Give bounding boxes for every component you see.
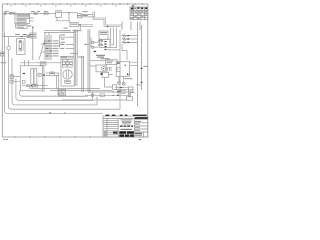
right sub column	[143, 132, 145, 137]
left terminal T2	[92, 46, 94, 48]
dark arrow in box	[127, 73, 129, 75]
trellis junction dots	[44, 43, 45, 44]
motor circle on wire A	[117, 91, 119, 93]
tiny box in condenser	[22, 81, 25, 84]
bottom band bus lines	[33, 89, 113, 91]
right switch row 1	[122, 35, 128, 37]
ignition module board 2	[17, 20, 26, 23]
arrow mark on wire B	[117, 95, 119, 96]
junction dot	[125, 65, 126, 66]
vertical wires below legend	[122, 22, 140, 31]
compressor control box	[99, 31, 108, 39]
center gray row	[121, 129, 133, 130]
terminal block TB1	[10, 75, 14, 79]
condenser bottom wire	[22, 85, 48, 87]
right vertical near condenser	[43, 65, 45, 92]
relay labels	[82, 11, 88, 12]
ladder rungs	[66, 45, 74, 49]
inline fuse	[27, 35, 29, 37]
long vertical bus right 1	[137, 22, 139, 107]
small box lower	[113, 85, 117, 90]
small box on wire A	[121, 90, 125, 93]
dark dash terminal	[94, 51, 97, 52]
panel terminal row 1	[62, 59, 67, 61]
fuse F1	[4, 12, 6, 14]
relay box RB2	[77, 16, 81, 18]
zone tick marks top border	[8, 3, 143, 5]
left terminal T1	[92, 41, 94, 43]
switch contacts S2	[44, 13, 46, 15]
connector label text	[96, 55, 105, 56]
right block cell texts	[135, 121, 141, 131]
small control box	[106, 60, 117, 65]
legend header text row	[131, 7, 147, 9]
inner small box	[117, 68, 120, 72]
center title bold text	[119, 131, 134, 137]
wire below module	[16, 18, 34, 28]
title block header line	[103, 118, 148, 120]
left edge label	[1, 62, 7, 63]
junction dot	[21, 36, 22, 37]
switch contacts S1	[34, 13, 36, 15]
battery box	[17, 38, 25, 54]
small box on wire B	[100, 94, 105, 97]
drop wires into condenser	[25, 60, 29, 66]
wires from RB3	[46, 73, 59, 89]
relay box mid RB3	[50, 72, 54, 76]
L wire below switches	[122, 44, 127, 60]
battery feed wire	[3, 36, 33, 38]
right switch row 2	[122, 38, 128, 40]
blower motor dome	[63, 70, 72, 79]
ammeter gauge	[7, 46, 11, 50]
small motor circle	[32, 84, 35, 87]
wires from relay boxes	[81, 14, 94, 17]
revision column	[106, 119, 108, 138]
wire flasher to junction	[78, 24, 80, 26]
evaporator panel tall box	[61, 58, 74, 86]
battery cell	[19, 41, 22, 51]
legend table top right	[130, 7, 148, 20]
capacitor C1	[31, 68, 34, 84]
arrow stub right	[85, 43, 90, 45]
center wires	[60, 36, 74, 38]
wire label texts	[5, 11, 10, 12]
text above	[101, 58, 110, 59]
nested enclosure 5	[20, 91, 88, 96]
wires from pins up right	[108, 28, 120, 50]
label box left-center	[30, 33, 36, 38]
sheet border frame	[2, 4, 148, 137]
terminal block TB2	[10, 80, 13, 83]
lower right wire	[90, 60, 106, 62]
small text	[137, 85, 141, 86]
motor circle A	[118, 81, 121, 84]
tiny box on bus	[30, 87, 33, 89]
battery area label texts	[15, 34, 20, 35]
pressure switch	[102, 67, 106, 71]
ignition module board 1	[17, 16, 29, 19]
wires to motors	[119, 76, 124, 82]
relay enclosure box right	[116, 62, 129, 77]
vertical dividers	[118, 119, 134, 138]
wire from box to bus	[130, 62, 138, 65]
side verticals	[82, 56, 84, 92]
sheet number below border	[139, 139, 142, 140]
upper trellis wire	[44, 30, 60, 32]
zone tick marks bottom border	[15, 136, 90, 138]
drop wire at x4	[3, 13, 5, 36]
bus line lower	[58, 96, 127, 100]
wire from B1 right	[62, 12, 70, 14]
revision marks	[104, 131, 107, 136]
bottom wire A	[88, 91, 129, 93]
center small text rows	[121, 119, 133, 124]
bottom horizontals right	[115, 88, 133, 90]
vertical to connector box	[128, 92, 130, 97]
vertical wire with arrow	[58, 35, 60, 47]
junction dot 2 on enclosure line	[64, 112, 65, 113]
wire to flasher	[56, 17, 70, 22]
wire down from junction	[68, 13, 70, 21]
control box B1 top	[56, 11, 62, 17]
right center verticals	[88, 30, 90, 93]
branch labels	[53, 40, 59, 56]
panel terminal row 2	[62, 62, 65, 64]
transformer output wire	[104, 75, 112, 88]
small box bottom	[128, 87, 133, 91]
junction dot on harness	[107, 26, 109, 28]
nested enclosure 3	[12, 58, 97, 105]
contact sym row1	[99, 39, 103, 42]
condenser unit box	[20, 66, 42, 91]
panel double right edge	[75, 58, 77, 86]
long vertical bus right 2	[141, 25, 143, 90]
dark marks left of lines	[119, 87, 122, 88]
junction dots on wires	[113, 91, 114, 92]
harness ribbon Z path	[93, 12, 122, 27]
bottom left tiny text	[3, 139, 5, 140]
diagonal wire	[39, 38, 46, 60]
comb connector	[107, 68, 112, 72]
wire right of battery	[32, 27, 34, 60]
right block header dark	[135, 117, 148, 119]
dark mark inside	[117, 62, 120, 63]
junction dot	[79, 24, 81, 26]
battery inner wire	[22, 41, 24, 51]
capacitor C2	[34, 68, 37, 84]
pressure switch enclosure	[96, 65, 106, 72]
connector block left edge	[1, 52, 4, 56]
right switch row 3	[122, 41, 128, 43]
tick marks on bus 2	[141, 68, 143, 69]
bottom wire B	[85, 94, 129, 96]
text below box	[125, 78, 133, 79]
panel text above	[61, 56, 67, 57]
tiny text near wire top	[28, 25, 32, 26]
motor circle B	[122, 82, 125, 85]
transformer T1	[102, 72, 109, 77]
nested enclosure 1	[5, 33, 103, 113]
wires TB to condenser	[13, 76, 20, 81]
dark dash in condenser	[23, 73, 25, 74]
zone number labels	[10, 5, 117, 6]
resistor R1 zigzag	[12, 12, 15, 14]
module lower box	[17, 24, 27, 28]
fan motor circle	[38, 73, 41, 76]
relay box RB1	[77, 13, 81, 15]
center label texts	[60, 35, 65, 36]
top feed wire	[3, 12, 56, 14]
panel terminal row 3	[62, 65, 67, 67]
nested enclosure 4	[16, 79, 93, 101]
center vertical bus	[74, 30, 77, 58]
relay box above condenser	[40, 62, 46, 65]
contact sym row2	[99, 43, 103, 46]
battery terminal dots	[20, 41, 21, 42]
right margin text	[144, 66, 148, 67]
wire text label	[131, 92, 134, 93]
connector arrow pins	[105, 41, 108, 51]
junction box B2	[58, 90, 66, 96]
drawing number dark	[135, 133, 142, 134]
condenser feed wire	[20, 62, 61, 64]
title block outline	[103, 116, 148, 137]
trellis verticals	[45, 32, 51, 60]
flasher unit	[70, 23, 78, 27]
center bold row (three chunks)	[120, 126, 133, 127]
wire to relay boxes	[69, 12, 77, 14]
junction dot on wire	[31, 85, 32, 86]
center lower horizontals	[60, 54, 78, 57]
wires from junction	[80, 25, 93, 30]
center top text rows	[60, 30, 71, 31]
junction dot top of battery wire	[32, 27, 33, 28]
title block	[103, 116, 148, 137]
dark dash right of condenser	[43, 75, 45, 76]
dark label on bus	[118, 90, 122, 91]
trellis branch stubs	[41, 41, 53, 56]
center wire	[44, 31, 75, 33]
motor label box	[65, 80, 71, 83]
legend cell text	[131, 11, 147, 19]
text below flasher	[64, 28, 68, 29]
connector box pair right	[127, 97, 133, 100]
wire	[90, 65, 96, 67]
nested enclosure 2	[8, 30, 120, 109]
wires joining connector boxes	[129, 91, 131, 97]
terminal circles pair	[9, 13, 11, 15]
right block rows	[134, 123, 148, 132]
pump motor circle	[91, 94, 94, 97]
text right of panel top	[78, 57, 84, 58]
left block dark note	[113, 132, 118, 134]
small component box b	[36, 84, 38, 87]
title header dark dashes	[106, 115, 147, 116]
small component box a	[27, 85, 30, 87]
control lower compartment	[100, 39, 111, 47]
junction dot on enclosure line	[49, 112, 50, 113]
junction dot	[68, 12, 69, 13]
terminal feed vertical	[90, 38, 92, 48]
ignition module outer box	[15, 14, 30, 23]
revision rows	[103, 120, 118, 135]
